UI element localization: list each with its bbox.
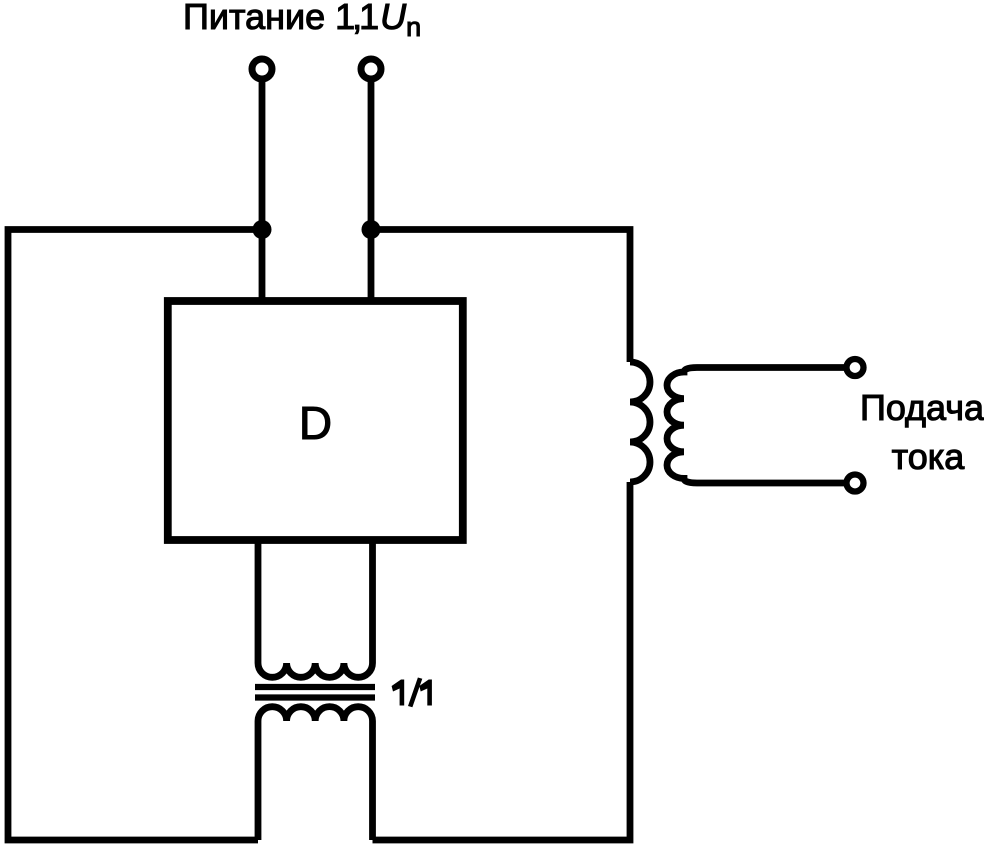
junction B [362, 220, 381, 239]
wire: left loop (junction A - left edge - bottom left) [8, 230, 262, 841]
wire: right loop lower (CT primary bottom - bottom right wire) [373, 482, 631, 840]
transformer T1 secondary winding with output wires [667, 368, 848, 484]
wire: device D top leads [259, 230, 266, 306]
wire: right supply lead (terminal to junction) [368, 72, 375, 230]
terminal: supply left [252, 59, 272, 79]
svg-text:Питание 1,1Un: Питание 1,1Un [183, 0, 421, 42]
wire: left supply lead (terminal to junction) [259, 72, 266, 230]
terminal: current output top [847, 359, 864, 376]
label: Подача тока [860, 387, 984, 477]
terminal: current output bottom [847, 475, 864, 492]
wire: T2 secondary left leg [255, 721, 262, 840]
transformer T2 primary winding (top, humps down) [258, 663, 373, 677]
transformer T2 secondary winding (bottom, humps up) [258, 707, 373, 721]
terminal: supply right [361, 59, 381, 79]
label: supply voltage "Питание 1,1 Un" [183, 0, 421, 42]
wire: T2 secondary right leg [369, 721, 376, 840]
junction A [253, 220, 272, 239]
label: ratio 1/1 [392, 678, 432, 708]
svg-text:D: D [299, 397, 332, 449]
transformer T2 core [255, 684, 375, 690]
svg-text:Подача: Подача [860, 387, 984, 428]
device U1: box D [168, 301, 463, 540]
svg-text:тока: тока [892, 436, 966, 477]
wire: right loop upper (junction B to CT primary top) [371, 230, 630, 363]
wire: device D bottom leads to transformer T2 [255, 536, 262, 663]
transformer T1 (current transformer) primary winding on right edge [630, 362, 650, 482]
